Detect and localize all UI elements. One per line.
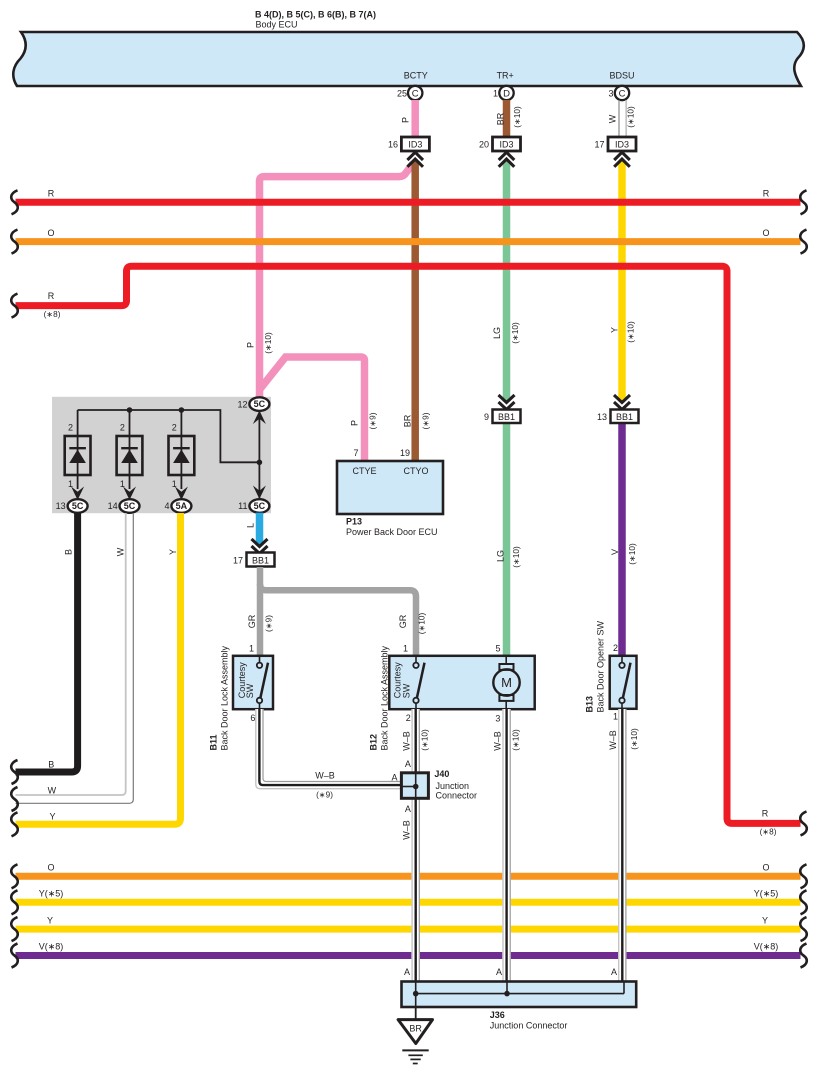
svg-text:B: B bbox=[48, 760, 54, 770]
svg-text:2: 2 bbox=[613, 643, 618, 653]
svg-text:BR: BR bbox=[409, 1024, 422, 1034]
svg-text:O: O bbox=[762, 863, 769, 873]
svg-text:L: L bbox=[246, 523, 256, 528]
svg-text:Connector: Connector bbox=[436, 790, 478, 800]
svg-text:W–B: W–B bbox=[315, 771, 335, 781]
svg-text:B11: B11 bbox=[208, 734, 218, 750]
svg-text:V(∗8): V(∗8) bbox=[754, 942, 779, 952]
svg-text:B: B bbox=[64, 549, 74, 555]
svg-text:P: P bbox=[246, 342, 256, 348]
svg-text:20: 20 bbox=[479, 140, 489, 150]
svg-text:M: M bbox=[501, 675, 512, 690]
svg-text:Power Back Door ECU: Power Back Door ECU bbox=[346, 527, 438, 537]
svg-text:1: 1 bbox=[68, 479, 73, 489]
svg-text:Back Door Lock Assembly: Back Door Lock Assembly bbox=[220, 645, 230, 750]
svg-text:Y(∗5): Y(∗5) bbox=[39, 889, 64, 899]
svg-text:SW: SW bbox=[402, 683, 412, 698]
svg-text:Junction Connector: Junction Connector bbox=[490, 1021, 568, 1031]
svg-text:A: A bbox=[611, 967, 617, 977]
svg-text:CTYO: CTYO bbox=[403, 466, 428, 476]
svg-text:17: 17 bbox=[594, 140, 604, 150]
svg-text:A: A bbox=[404, 967, 410, 977]
svg-text:BR: BR bbox=[403, 414, 413, 427]
svg-text:R: R bbox=[48, 189, 55, 199]
svg-text:P: P bbox=[400, 117, 410, 123]
svg-text:Body ECU: Body ECU bbox=[256, 20, 298, 30]
svg-text:13: 13 bbox=[56, 501, 66, 511]
svg-text:R: R bbox=[762, 809, 769, 819]
svg-text:W: W bbox=[116, 547, 126, 556]
svg-text:(∗10): (∗10) bbox=[628, 543, 637, 565]
svg-text:4: 4 bbox=[164, 501, 169, 511]
svg-text:ID3: ID3 bbox=[408, 140, 422, 150]
svg-text:3: 3 bbox=[495, 714, 500, 724]
svg-text:SW: SW bbox=[245, 683, 255, 698]
svg-text:(∗9): (∗9) bbox=[265, 615, 274, 632]
svg-text:(∗10): (∗10) bbox=[513, 106, 522, 128]
svg-text:19: 19 bbox=[400, 448, 410, 458]
svg-text:O: O bbox=[47, 228, 54, 238]
svg-text:(∗10): (∗10) bbox=[264, 332, 273, 354]
svg-text:16: 16 bbox=[388, 140, 398, 150]
svg-text:W–B: W–B bbox=[608, 730, 618, 750]
svg-text:Y: Y bbox=[610, 327, 620, 333]
svg-text:Y: Y bbox=[762, 915, 768, 925]
svg-text:5A: 5A bbox=[176, 501, 188, 511]
svg-text:3: 3 bbox=[608, 89, 613, 99]
svg-text:14: 14 bbox=[108, 501, 118, 511]
svg-text:Y: Y bbox=[168, 549, 178, 555]
svg-text:(∗10): (∗10) bbox=[630, 728, 639, 750]
svg-text:(∗9): (∗9) bbox=[316, 791, 333, 800]
svg-text:5C: 5C bbox=[72, 501, 84, 511]
svg-text:GR: GR bbox=[398, 614, 408, 628]
svg-text:13: 13 bbox=[597, 412, 607, 422]
svg-text:LG: LG bbox=[492, 327, 502, 339]
svg-text:BR: BR bbox=[496, 112, 506, 125]
svg-text:1: 1 bbox=[613, 712, 618, 722]
svg-text:O: O bbox=[47, 863, 54, 873]
svg-text:5C: 5C bbox=[254, 399, 266, 409]
svg-text:1: 1 bbox=[493, 89, 498, 99]
svg-text:2: 2 bbox=[406, 713, 411, 723]
svg-text:B 4(D), B 5(C), B 6(B), B 7(A): B 4(D), B 5(C), B 6(B), B 7(A) bbox=[255, 10, 376, 20]
svg-text:R: R bbox=[763, 189, 770, 199]
svg-text:1: 1 bbox=[249, 644, 254, 654]
svg-text:Y: Y bbox=[47, 915, 53, 925]
svg-text:BCTY: BCTY bbox=[404, 71, 428, 81]
svg-text:(∗10): (∗10) bbox=[511, 322, 520, 344]
svg-text:C: C bbox=[412, 88, 419, 99]
svg-text:R: R bbox=[48, 291, 55, 301]
svg-text:2: 2 bbox=[172, 422, 177, 432]
svg-text:CTYE: CTYE bbox=[352, 466, 376, 476]
svg-text:P13: P13 bbox=[346, 517, 362, 527]
svg-text:25: 25 bbox=[397, 89, 407, 99]
svg-text:11: 11 bbox=[238, 501, 247, 511]
svg-text:B12: B12 bbox=[369, 734, 379, 751]
svg-text:12: 12 bbox=[237, 399, 247, 409]
svg-text:W–B: W–B bbox=[492, 731, 502, 751]
svg-text:P: P bbox=[350, 420, 360, 426]
svg-text:A: A bbox=[405, 759, 411, 769]
svg-text:(∗10): (∗10) bbox=[627, 106, 636, 128]
svg-text:5C: 5C bbox=[124, 501, 136, 511]
svg-text:(∗10): (∗10) bbox=[512, 546, 521, 568]
svg-text:5: 5 bbox=[495, 644, 500, 654]
svg-text:1: 1 bbox=[172, 479, 177, 489]
svg-text:2: 2 bbox=[120, 422, 125, 432]
svg-text:Y: Y bbox=[49, 812, 55, 822]
svg-text:O: O bbox=[762, 228, 769, 238]
svg-text:J40: J40 bbox=[434, 769, 449, 779]
svg-text:(∗9): (∗9) bbox=[422, 412, 431, 429]
svg-text:C: C bbox=[619, 88, 626, 99]
svg-text:W: W bbox=[48, 785, 57, 795]
svg-text:Back Door Lock Assembly: Back Door Lock Assembly bbox=[380, 645, 390, 750]
svg-text:A: A bbox=[405, 804, 411, 814]
svg-text:A: A bbox=[496, 967, 502, 977]
svg-text:9: 9 bbox=[484, 412, 489, 422]
svg-text:1: 1 bbox=[403, 644, 408, 654]
svg-text:J36: J36 bbox=[490, 1010, 505, 1020]
svg-text:BDSU: BDSU bbox=[609, 71, 634, 81]
svg-text:ID3: ID3 bbox=[499, 140, 513, 150]
svg-text:(∗10): (∗10) bbox=[627, 321, 636, 343]
svg-text:17: 17 bbox=[233, 556, 243, 566]
svg-text:D: D bbox=[503, 88, 510, 99]
svg-text:BB1: BB1 bbox=[252, 556, 269, 566]
svg-text:W: W bbox=[608, 114, 618, 123]
svg-text:5C: 5C bbox=[254, 501, 266, 511]
svg-text:BB1: BB1 bbox=[616, 412, 633, 422]
svg-text:B13: B13 bbox=[585, 696, 595, 713]
svg-text:W–B: W–B bbox=[401, 820, 411, 840]
svg-text:(∗8): (∗8) bbox=[44, 310, 61, 319]
svg-text:7: 7 bbox=[353, 448, 358, 458]
svg-text:V(∗8): V(∗8) bbox=[39, 942, 64, 952]
svg-text:LG: LG bbox=[495, 550, 505, 562]
svg-text:(∗10): (∗10) bbox=[421, 729, 430, 751]
svg-text:V: V bbox=[610, 549, 620, 555]
svg-text:GR: GR bbox=[247, 614, 257, 628]
svg-text:6: 6 bbox=[250, 713, 255, 723]
svg-text:W–B: W–B bbox=[401, 731, 411, 751]
svg-text:TR+: TR+ bbox=[497, 71, 514, 81]
svg-text:A: A bbox=[391, 773, 397, 783]
svg-text:ID3: ID3 bbox=[615, 140, 629, 150]
svg-text:(∗10): (∗10) bbox=[418, 613, 427, 635]
svg-text:Y(∗5): Y(∗5) bbox=[754, 889, 779, 899]
svg-text:(∗10): (∗10) bbox=[512, 729, 521, 751]
svg-text:BB1: BB1 bbox=[498, 412, 515, 422]
svg-text:1: 1 bbox=[120, 479, 125, 489]
svg-text:(∗9): (∗9) bbox=[369, 412, 378, 429]
svg-text:Back Door Opener SW: Back Door Opener SW bbox=[596, 620, 606, 712]
svg-text:2: 2 bbox=[68, 422, 73, 432]
svg-text:(∗8): (∗8) bbox=[760, 828, 777, 837]
